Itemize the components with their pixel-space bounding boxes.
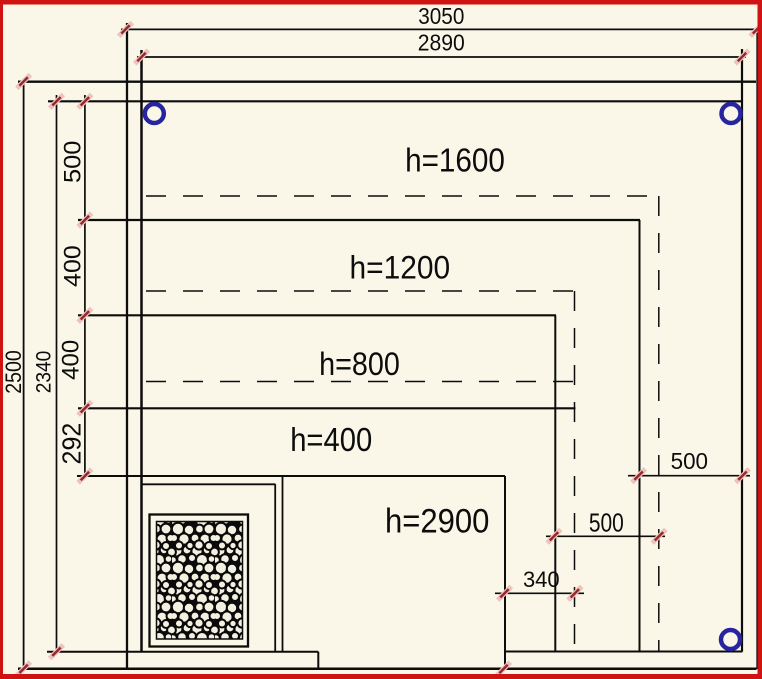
dim text 340 [523, 567, 560, 592]
svg-text:3050: 3050 [418, 3, 464, 30]
wall inner top [48, 100, 741, 102]
svg-text:h=400: h=400 [290, 421, 372, 458]
bench h1200 dashed hidden edge [146, 290, 575, 292]
bench h400 front edge [78, 407, 576, 409]
drawing right border line [756, 29, 758, 669]
dim text 500 right lower [589, 509, 624, 538]
label h=1600 [405, 142, 505, 179]
step top / 2340 extension [47, 651, 318, 653]
step right edge [317, 652, 319, 669]
dim text 400 lower rotated [58, 340, 85, 380]
corner marker bottom-right [721, 630, 740, 649]
dimension line 3050 [121, 28, 758, 30]
bench h1600 front edge [78, 219, 640, 221]
svg-text:500: 500 [59, 141, 86, 184]
bench h1600 dashed hidden edge [146, 195, 660, 197]
niche partition inner [274, 484, 276, 651]
dim text 2890 [418, 30, 465, 56]
wall inner left [140, 50, 143, 652]
dimension line 500 right lower [546, 535, 665, 537]
svg-text:h=2900: h=2900 [385, 501, 489, 540]
heater outer box [150, 515, 249, 647]
wall outer bottom [18, 668, 757, 671]
svg-text:h=800: h=800 [319, 346, 400, 382]
svg-text:h=1200: h=1200 [349, 250, 450, 286]
dimension line 2500 vertical [23, 82, 25, 669]
bench h1600 side edge [639, 220, 641, 652]
wall outer top [18, 80, 756, 82]
svg-text:292: 292 [58, 423, 87, 465]
wall outer left [126, 23, 128, 669]
dim text 3050 [418, 3, 464, 30]
bench h1200 side edge [554, 315, 556, 651]
corner marker top-left [145, 104, 164, 123]
bench h1200 dashed side [574, 291, 576, 652]
dim text 292 rotated [58, 423, 87, 465]
dim text 2340 rotated [33, 351, 56, 394]
svg-text:2340: 2340 [33, 351, 56, 394]
dim text 500 left rotated [59, 141, 86, 184]
dimension line 340 [495, 592, 584, 594]
dim text 500 right upper [671, 447, 708, 474]
dimension line 2890 [137, 56, 746, 58]
corner marker top-right [722, 104, 741, 123]
label h=2900 [385, 501, 489, 540]
h2900 right edge [504, 476, 506, 669]
svg-text:400: 400 [60, 245, 87, 287]
label h=800 [319, 346, 400, 382]
svg-text:340: 340 [523, 567, 560, 592]
bench h800 dashed hidden edge [146, 381, 575, 383]
h2900 area top edge [77, 475, 505, 477]
svg-text:2500: 2500 [2, 350, 27, 393]
svg-text:500: 500 [589, 509, 624, 538]
label h=400 [290, 421, 372, 458]
bench h1200 front edge [78, 314, 556, 316]
svg-text:2890: 2890 [418, 30, 465, 56]
svg-text:h=1600: h=1600 [405, 142, 505, 179]
dimension column 500/400/400/292 [84, 95, 86, 476]
svg-text:500: 500 [671, 447, 708, 474]
heater stones [157, 522, 243, 640]
dim text 400 upper rotated [60, 245, 87, 287]
wall inner right [741, 49, 743, 652]
heater niche inner top [142, 483, 276, 485]
niche partition outer [282, 476, 284, 652]
bench h1600 dashed side [658, 196, 660, 652]
label h=1200 [349, 250, 450, 286]
bottom wall inner right [505, 651, 743, 653]
dimension line 500 right upper [628, 475, 750, 477]
dimension line 2340 vertical [56, 95, 58, 652]
svg-text:400: 400 [58, 340, 85, 380]
dim text 2500 rotated [2, 350, 27, 393]
